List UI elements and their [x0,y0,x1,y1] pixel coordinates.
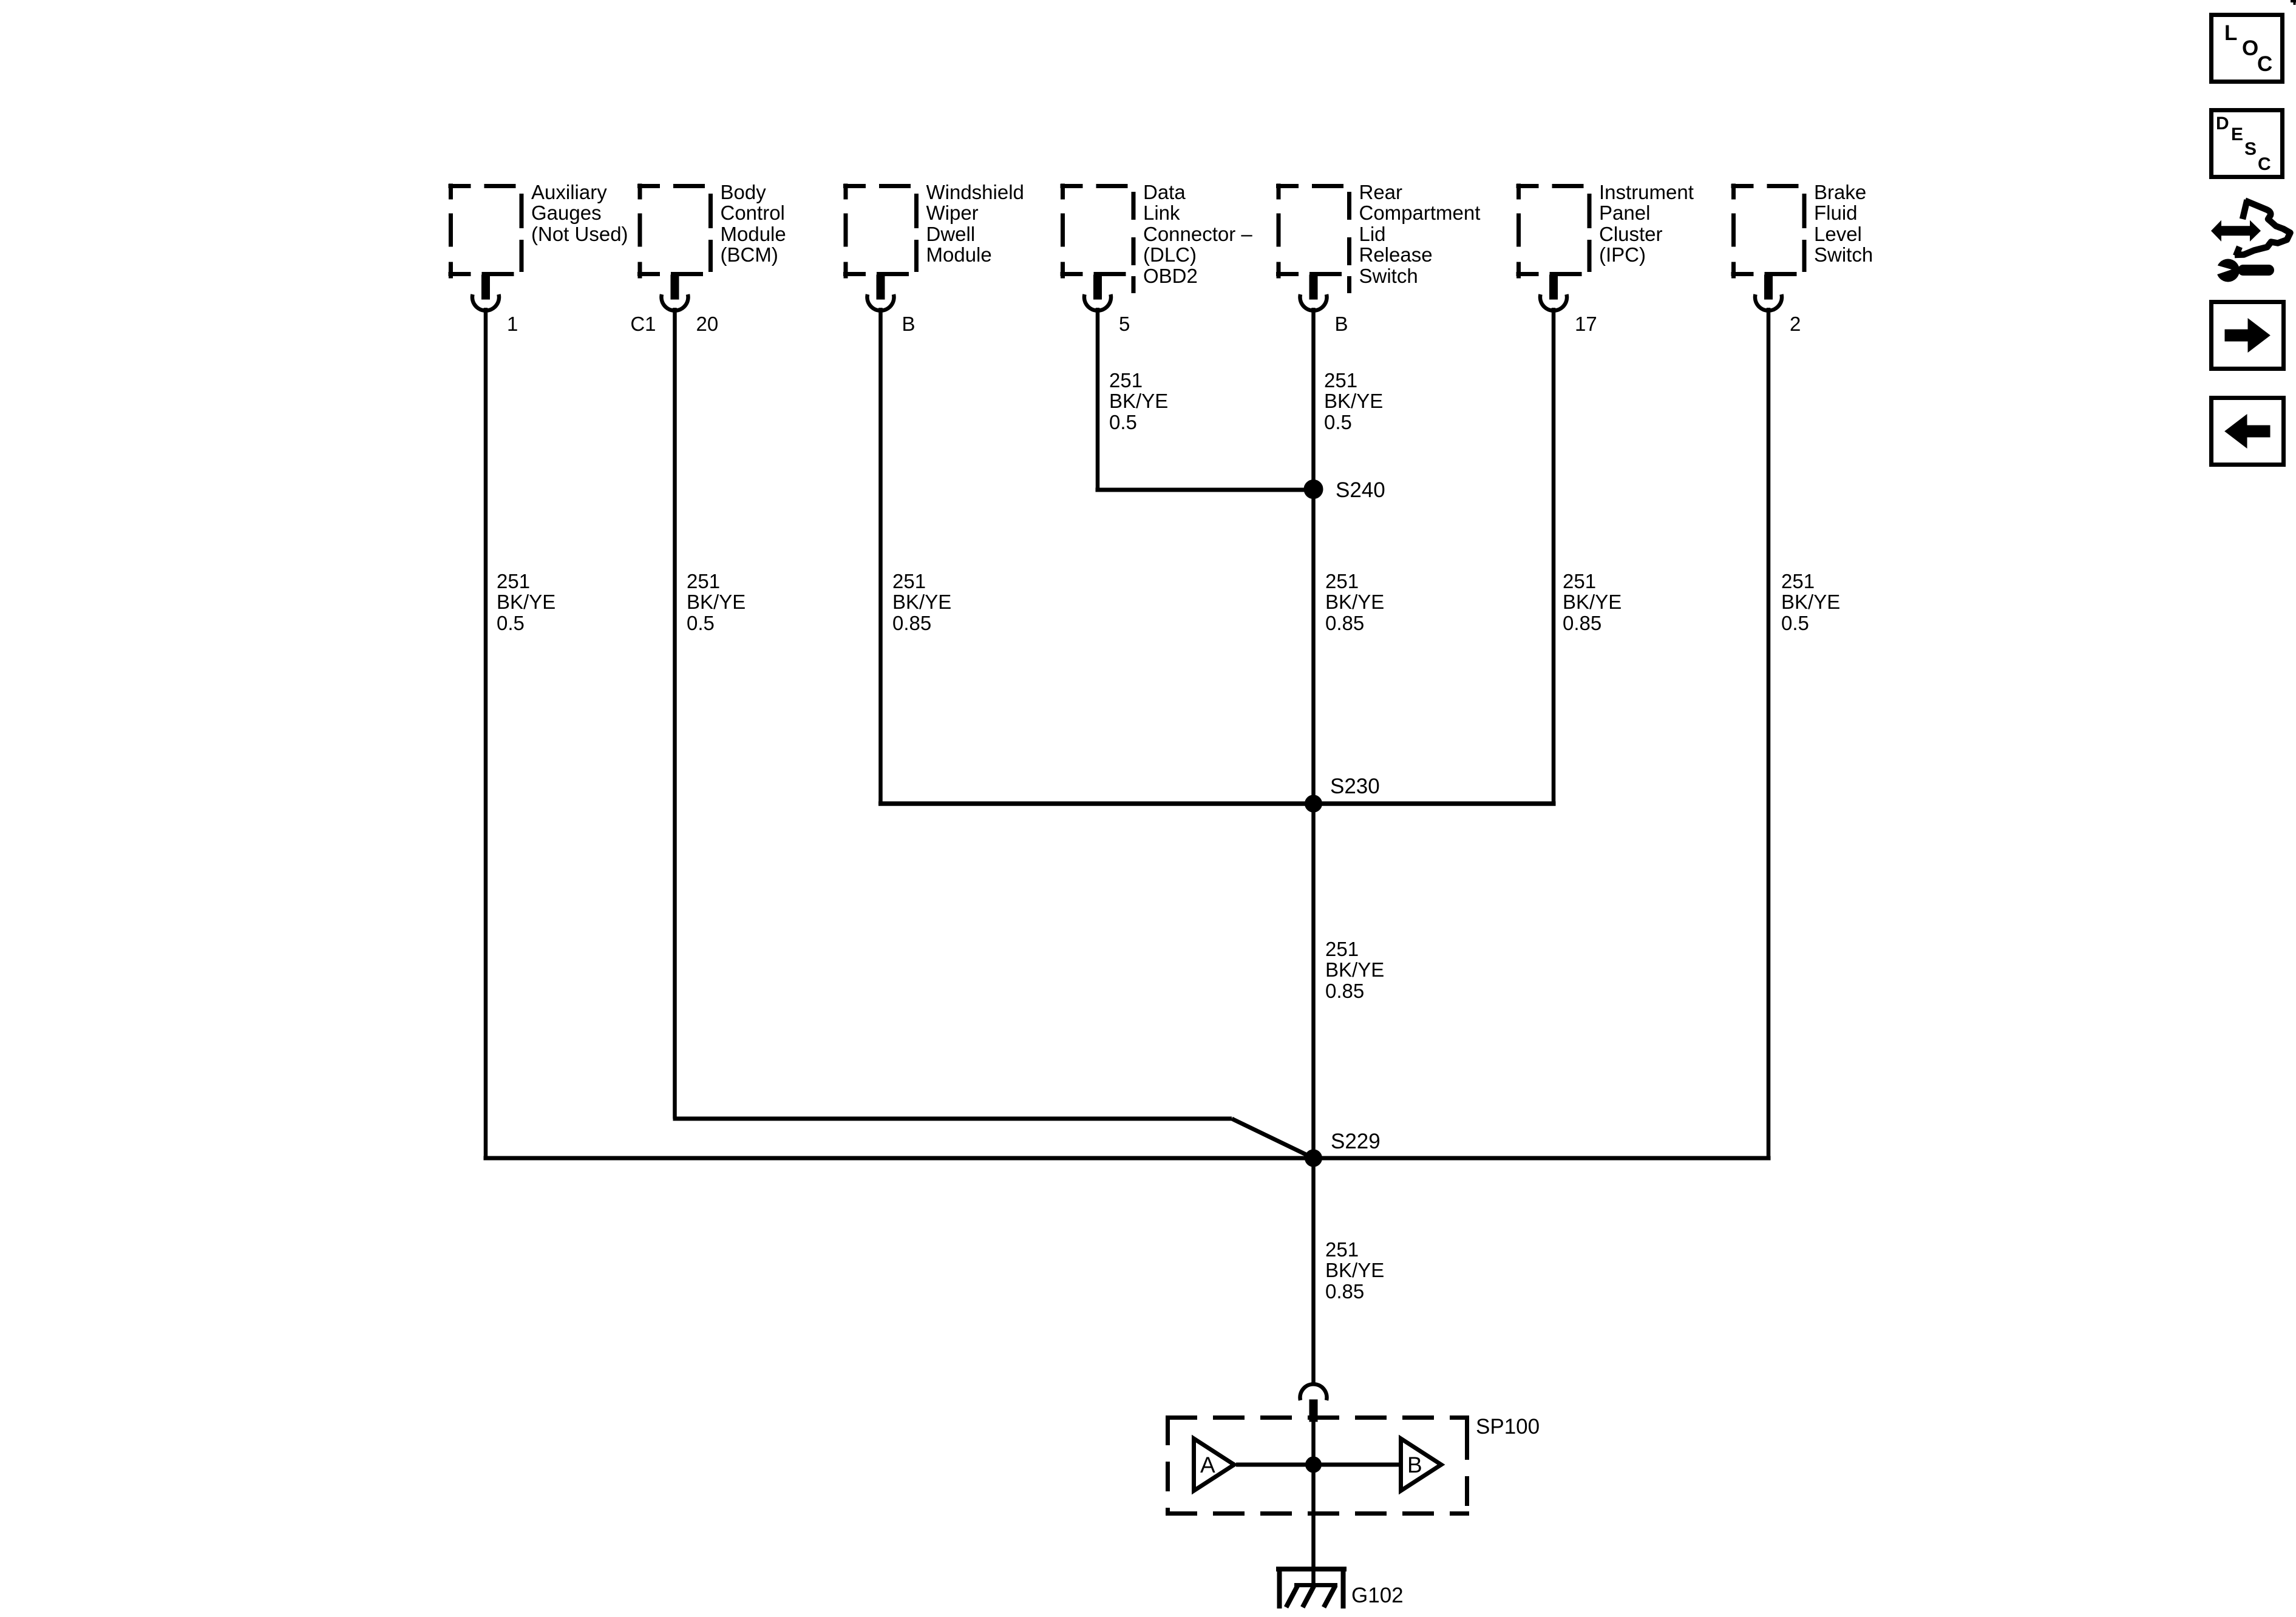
connector box: Windshield Wiper Dwell Module [843,184,917,279]
wire rear / main 251 BK/YE [1311,308,1316,1384]
LOC letter C [2257,54,2272,75]
connector box: Body Control Module (BCM) [637,184,711,279]
DESC button box [2212,110,2283,177]
pin 1 of auxiliary [507,314,518,335]
pin designator C1 of body [630,314,656,335]
wire label rear 251 BK/YE 0.5 [1324,370,1383,433]
LOC letter L [2224,23,2237,44]
page corner mark [2291,0,2296,5]
wire label main 251 BK/YE 0.85 (S230-S229) [1325,939,1384,1002]
wire S229 horizontal [484,1156,1771,1161]
label S240 [1336,480,1385,501]
wire label brake 251 BK/YE 0.5 [1781,571,1840,634]
connector symbol pin B of Windshield [868,275,894,311]
connector symbol pin 20 of Body [662,275,688,311]
label B [1407,1454,1422,1476]
prev-page arrow box [2212,398,2284,465]
connector symbol pin 1 of Auxiliary [472,275,499,311]
label SP100 [1476,1417,1540,1438]
label A [1200,1454,1215,1476]
label body [721,182,786,266]
connector box: Data Link Connector – (DLC) OBD2 [1061,184,1134,294]
splice pack SP100 dashed box [1166,1415,1469,1516]
DESC letter E [2231,124,2243,146]
label S229 [1331,1131,1381,1153]
LOC letter O [2242,38,2258,59]
connector box: Brake Fluid Level Switch [1731,184,1805,279]
wire bcm 251 BK/YE 0.5 [673,308,677,1119]
wire ipc 251 BK/YE 0.85 [1552,308,1556,804]
label auxiliary [531,182,628,245]
splice point B triangle [1401,1439,1442,1491]
wire label dlc 251 BK/YE 0.5 [1109,370,1168,433]
label G102 [1351,1585,1404,1607]
connector hop into SP100 [1300,1384,1327,1422]
wire dlc to S240 [1096,488,1314,492]
wire label wwd 251 BK/YE 0.85 [892,571,951,634]
junction dot in SP100 [1306,1457,1322,1473]
DESC letter S [2244,139,2257,160]
pin B of windshield [902,314,915,335]
wire through SP100 [1311,1422,1316,1569]
locator icon: double arrow, component outline, wrench [2211,220,2261,242]
connector box: Rear Compartment Lid Release Switch [1276,184,1350,294]
wire bcm diagonal into S229 [1232,1119,1314,1158]
splice S229 [1305,1150,1322,1167]
label instrument [1599,182,1694,266]
splice S240 [1304,480,1323,499]
connector symbol pin 17 of Instrument [1540,275,1567,311]
wire wwd 251 BK/YE 0.85 [878,308,883,804]
next-page arrow box [2212,302,2284,369]
connector symbol pin 2 of Brake [1755,275,1782,311]
wire label aux 251 BK/YE 0.5 [497,571,555,634]
splice S230 [1305,795,1322,812]
pin 2 of brake [1790,314,1801,335]
label data [1143,182,1252,287]
DESC letter C [2258,154,2271,175]
label brake [1814,182,1873,266]
connector symbol pin 5 of Data [1084,275,1111,311]
wire A to B [1236,1463,1401,1467]
wire label main 251 BK/YE 0.85 (above S230) [1325,571,1384,634]
connector box: Auxiliary Gauges (Not Used) [449,184,522,279]
label windshield [926,182,1024,266]
wire label ipc 251 BK/YE 0.85 [1563,571,1622,634]
wire label main 251 BK/YE 0.85 (S229-SP100) [1325,1239,1384,1303]
splice point A triangle [1194,1439,1235,1491]
pin 20 of body [696,314,719,335]
wire aux 251 BK/YE 0.5 [484,308,488,1158]
pin B of rear [1335,314,1348,335]
wire bcm horizontal run [673,1117,1232,1121]
label rear [1359,182,1481,287]
connector symbol pin B of Rear [1300,275,1327,311]
LOC button box [2212,15,2283,82]
wire S230 horizontal [878,801,1556,806]
pin 5 of data [1119,314,1130,335]
label S230 [1330,776,1380,798]
connector box: Instrument Panel Cluster (IPC) [1517,184,1590,279]
wire label bcm 251 BK/YE 0.5 [687,571,746,634]
wire brake 251 BK/YE 0.5 [1767,308,1771,1158]
DESC letter D [2216,114,2229,135]
pin 17 of instrument [1575,314,1597,335]
wire dlc 251 BK/YE 0.5 [1096,308,1100,489]
ground G102 symbol [1276,1567,1347,1609]
